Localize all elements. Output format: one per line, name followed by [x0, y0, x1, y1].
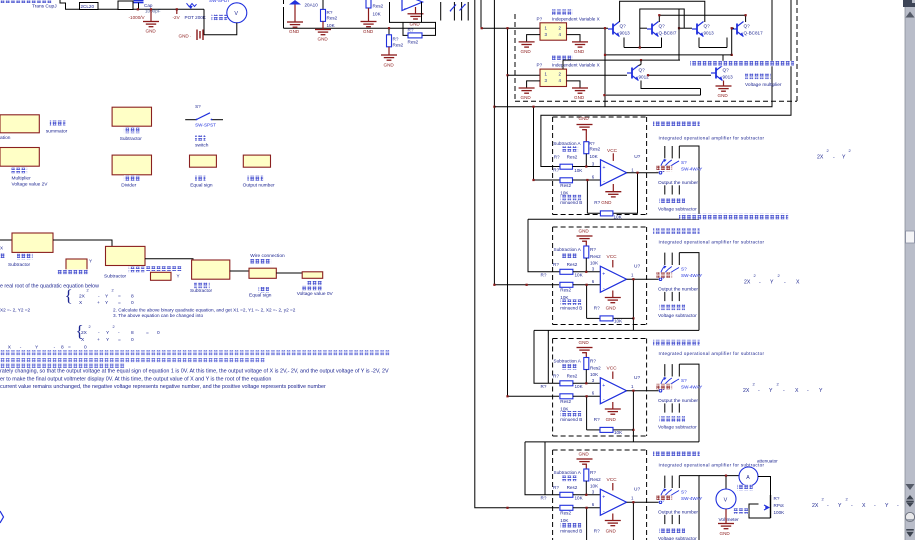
- svg-text:10K: 10K: [575, 384, 584, 389]
- svg-text:-2V: -2V: [173, 15, 181, 20]
- svg-text:X: X: [862, 503, 866, 509]
- block 2 feedback wire: [632, 279, 634, 330]
- ground under Q6: [723, 81, 725, 87]
- svg-text:GND: GND: [718, 93, 729, 98]
- scrollbar button sphere: [905, 512, 914, 521]
- block 2 switch contacts: [664, 253, 666, 265]
- svg-text:minuend B: minuend B: [560, 528, 582, 533]
- block 3 output wire: [627, 390, 659, 392]
- block 3 wire input A to pin3: [573, 382, 600, 384]
- svg-text:+: +: [602, 271, 605, 277]
- wire Q2 base stub: [640, 27, 647, 29]
- svg-text:·: ·: [190, 34, 192, 39]
- block 3 feedback wire: [632, 391, 634, 442]
- svg-text:VCC: VCC: [607, 148, 618, 154]
- svg-text:GND: GND: [606, 305, 617, 310]
- svg-text:20A10: 20A10: [305, 3, 319, 8]
- block 4 resistor R? Res2 10K vertical: [584, 469, 589, 481]
- svg-text:Y: Y: [770, 280, 774, 286]
- svg-text:GND: GND: [579, 116, 590, 121]
- block 4 title 减法器用集成运算放: [653, 451, 700, 457]
- svg-text:Subtraction A: Subtraction A: [553, 141, 581, 146]
- potentiometer R? POT 200K: [187, 3, 197, 7]
- svg-text:Trans CupJ: Trans CupJ: [32, 4, 57, 10]
- svg-text:10K: 10K: [560, 518, 569, 523]
- svg-text:10K: 10K: [327, 23, 336, 28]
- svg-text:-: -: [833, 155, 835, 161]
- svg-text:Q?: Q?: [744, 24, 751, 29]
- svg-text:Multiplier: Multiplier: [12, 175, 32, 181]
- svg-text:2X: 2X: [743, 388, 750, 394]
- svg-text:Res2: Res2: [590, 254, 601, 259]
- wire mark left edge: [0, 511, 4, 523]
- transistor Q? 9013 (1): [608, 22, 620, 37]
- svg-text:GND: GND: [384, 62, 395, 67]
- svg-text:R?: R?: [553, 168, 559, 173]
- svg-text:Integrated operational amplifi: Integrated operational amplifier for sub…: [659, 135, 765, 140]
- resistor R? Res2 vertical 3: [388, 28, 390, 35]
- block 3 feedback resistor R? 10K: [600, 427, 613, 432]
- block 2 rotary switch S? SW-4WAY: [659, 267, 679, 281]
- svg-text:=: =: [68, 345, 71, 350]
- capacitor C1 Cap 1000pF: [134, 1, 144, 3]
- svg-text:{: {: [65, 286, 73, 305]
- svg-text:P?: P?: [537, 63, 543, 68]
- wire Q3 base stub: [679, 27, 692, 29]
- svg-text:U?: U?: [634, 154, 640, 160]
- svg-text:+: +: [97, 338, 100, 343]
- svg-text:-: -: [759, 280, 761, 286]
- svg-text:Y: Y: [842, 155, 846, 161]
- svg-text:VCC: VCC: [607, 254, 618, 260]
- block 4 VCC: [612, 483, 614, 490]
- svg-text:Q-BC8!7: Q-BC8!7: [659, 31, 677, 36]
- block subtractor C: [106, 246, 146, 265]
- svg-text:Output the number: Output the number: [658, 180, 698, 186]
- block 2 resistor input A: [560, 269, 573, 274]
- block 3 rotary switch S? SW-4WAY: [659, 378, 679, 392]
- wire stub bus 2: [453, 2, 455, 21]
- block 1 resistor input B: [560, 178, 573, 183]
- block 4 switch contacts lower: [664, 515, 666, 524]
- svg-text:GND: GND: [363, 29, 374, 34]
- svg-text:Output the number: Output the number: [658, 287, 698, 293]
- svg-text:Subtraction A: Subtraction A: [554, 247, 582, 252]
- block 1 VCC: [612, 153, 614, 161]
- block summator 加法器: [0, 115, 39, 133]
- svg-text:er to make the final output vo: er to make the final output voltmeter di…: [0, 376, 271, 382]
- bus wire A (to block4 input): [475, 0, 559, 508]
- block 2 output rail: [534, 329, 699, 331]
- block 1 note 减法器对功能A 差值数值传感 电压不变: [679, 214, 788, 220]
- svg-text:SW-4WAY: SW-4WAY: [681, 385, 702, 390]
- wire Q5 collector: [640, 60, 642, 64]
- svg-text:switch: switch: [195, 142, 209, 148]
- wire mid rail y54.9: [604, 54, 731, 56]
- svg-text:X: X: [0, 246, 3, 251]
- svg-text:V: V: [724, 497, 728, 503]
- block 2 resistor input B: [560, 282, 573, 287]
- label 开关 switch: [195, 135, 205, 141]
- bus wire C (to block2 input): [494, 0, 559, 285]
- svg-text:9013: 9013: [620, 31, 631, 36]
- svg-text:10K: 10K: [590, 372, 599, 377]
- node -1000/V: [137, 8, 139, 10]
- svg-text:minuend B: minuend B: [560, 417, 582, 422]
- svg-text:R?: R?: [393, 37, 399, 42]
- block 2 feedback resistor R? 10K: [600, 316, 613, 321]
- ground under op-amp: [415, 7, 417, 14]
- block 2 VCC: [612, 260, 614, 267]
- svg-text:Divider: Divider: [121, 183, 136, 189]
- svg-text:Output the number: Output the number: [658, 398, 698, 404]
- svg-text:VCC: VCC: [607, 366, 618, 372]
- block 1 wire input A to pin3: [573, 166, 601, 168]
- block 3 op-amp U?: [600, 378, 626, 404]
- svg-text:10K: 10K: [574, 168, 583, 173]
- block 2 op-amp ground: [612, 291, 614, 298]
- block 3 switch label 输出数: [657, 384, 673, 390]
- svg-text:X: X: [796, 280, 800, 286]
- wire stub bus 1: [440, 2, 442, 21]
- block 3 output rail: [525, 441, 699, 443]
- wire rail2: [640, 9, 684, 48]
- svg-text:Res2: Res2: [560, 183, 571, 188]
- svg-text:-: -: [807, 388, 809, 394]
- block 1 resistor input A: [560, 164, 573, 169]
- multiplier note 乘方器的功能是A点电压数值的平方 电压不变: [690, 61, 794, 67]
- svg-text:Independent Variable X: Independent Variable X: [552, 16, 600, 21]
- svg-text:Wire connection: Wire connection: [250, 253, 285, 259]
- svg-text:10K: 10K: [373, 11, 382, 16]
- svg-text:GND: GND: [574, 95, 585, 100]
- voltmeter V2: [716, 489, 736, 509]
- label 电压表: [733, 508, 749, 514]
- block 1 output wire: [627, 172, 659, 174]
- svg-text:S?: S?: [681, 160, 687, 165]
- svg-text:SW-4WAY: SW-4WAY: [681, 273, 702, 278]
- svg-text:Voltage subtractor: Voltage subtractor: [658, 313, 697, 319]
- transistor Q? Q-BC8!7 (2): [647, 22, 659, 37]
- svg-text:GND: GND: [146, 29, 157, 34]
- resistor R? Res2 10K vertical 1: [322, 0, 324, 9]
- feedback resistor R? Res2: [408, 33, 422, 38]
- svg-text:Res2: Res2: [560, 511, 571, 516]
- scrollbar thumb: [906, 231, 915, 243]
- wire stub bus 4: [467, 2, 469, 21]
- wire header1 to Q1 base: [567, 27, 609, 29]
- svg-text:R?: R?: [590, 247, 596, 252]
- svg-text:9013: 9013: [704, 31, 715, 36]
- svg-text:-: -: [874, 503, 876, 509]
- svg-text:2. Calculate the above binary: 2. Calculate the above binary quadratic …: [113, 307, 296, 312]
- block 4 resistor input A: [560, 492, 573, 497]
- wire main rail: [133, 8, 204, 10]
- wire top rail: [620, 1, 705, 22]
- scrollbar down arrow: [906, 484, 915, 490]
- svg-text:+: +: [602, 383, 605, 389]
- wire multiplier output to block1 +: [494, 0, 772, 107]
- wire rail y60: [563, 59, 680, 61]
- ground under voltmeter: [725, 509, 727, 524]
- svg-text:GND: GND: [521, 49, 532, 54]
- svg-text:10K: 10K: [590, 154, 599, 159]
- svg-text:0: 0: [157, 330, 160, 336]
- svg-text:R?: R?: [774, 496, 780, 501]
- node -2V: [176, 8, 178, 10]
- block 1 output rail: [528, 218, 699, 220]
- svg-text:attenuator: attenuator: [757, 459, 778, 464]
- block 4 resistor input B: [560, 505, 573, 510]
- block 1 switch contacts: [664, 146, 666, 158]
- svg-text:Subtraction A: Subtraction A: [554, 359, 582, 364]
- svg-text:Independent Variable X: Independent Variable X: [552, 63, 600, 68]
- svg-text:2CL20: 2CL20: [81, 4, 95, 9]
- svg-text:Integrated operational amplifi: Integrated operational amplifier for sub…: [659, 351, 765, 356]
- block 2 op-amp U?: [600, 266, 626, 292]
- block voltage value 0V: [302, 272, 323, 279]
- svg-text:Y: Y: [838, 503, 842, 509]
- bus wire B (to header P1): [481, 0, 540, 28]
- wire Q5 emitter rail: [641, 81, 701, 89]
- svg-text:R?: R?: [327, 10, 333, 15]
- svg-text:Q?: Q?: [639, 68, 646, 73]
- chinese paragraph line 2: [0, 357, 265, 362]
- svg-text:0: 0: [131, 337, 134, 343]
- block 1 feedback wire: [587, 173, 637, 214]
- svg-text:10K: 10K: [614, 430, 623, 435]
- wire to Q6 base: [648, 74, 711, 76]
- block 3 resistor input B: [560, 394, 573, 399]
- block 2 output wire: [627, 278, 659, 280]
- svg-text:1000pF: 1000pF: [145, 8, 161, 13]
- feedback wires: [390, 2, 436, 35]
- svg-text:Voltage value 0V: Voltage value 0V: [297, 291, 334, 297]
- svg-text:Q-BC817: Q-BC817: [744, 31, 764, 36]
- svg-text:2: 2: [113, 325, 115, 329]
- svg-text:GND: GND: [289, 29, 300, 34]
- svg-text:current value remains unchange: current value remains unchanged, the neg…: [0, 384, 326, 390]
- svg-text:Cap: Cap: [144, 3, 153, 8]
- op-amp U? (top, partial): [402, 0, 423, 11]
- svg-text:GND: GND: [579, 452, 590, 457]
- svg-text:GND: GND: [601, 200, 612, 205]
- svg-text:10K: 10K: [590, 484, 599, 489]
- svg-text:100K: 100K: [774, 510, 786, 515]
- svg-text:2X: 2X: [81, 330, 88, 336]
- wire into subtractor A: [0, 239, 12, 241]
- svg-text:8: 8: [61, 344, 64, 350]
- svg-text:-: -: [827, 503, 829, 509]
- svg-text:0: 0: [131, 300, 134, 306]
- svg-text:Voltmeter: Voltmeter: [719, 517, 740, 523]
- block 2 title 减法器用集成运算放: [653, 228, 700, 234]
- switch glyph S: [451, 5, 457, 11]
- block 4 feedback wire: [632, 502, 634, 540]
- block 1 switch contacts lower: [664, 185, 666, 194]
- wire F to G: [276, 272, 302, 274]
- svg-text:Voltage value 2V: Voltage value 2V: [12, 182, 49, 188]
- block 1 op-amp ground: [612, 184, 614, 192]
- svg-text:Subtractor: Subtractor: [120, 136, 143, 142]
- wire C to E: [145, 259, 193, 260]
- svg-text:2: 2: [112, 289, 114, 293]
- block 1 feedback resistor R? 10K: [600, 211, 613, 216]
- svg-text:10K: 10K: [614, 319, 623, 324]
- svg-text:2X: 2X: [79, 293, 86, 299]
- svg-text:0: 0: [84, 344, 87, 350]
- svg-text:GND: GND: [574, 49, 585, 54]
- svg-text:S?: S?: [681, 267, 687, 272]
- svg-text:R?: R?: [594, 200, 600, 205]
- wire bus to header P2: [508, 74, 541, 76]
- svg-text:GND: GND: [179, 34, 190, 39]
- svg-text:SW-SPDT: SW-SPDT: [209, 0, 230, 3]
- svg-text:2: 2: [87, 289, 89, 293]
- svg-text:Res2: Res2: [590, 146, 601, 151]
- svg-text:Res2: Res2: [373, 4, 384, 9]
- chinese paragraph line 3: [0, 364, 125, 369]
- rectifier box 2: [118, 1, 133, 10]
- ground header1 pin3: [527, 35, 540, 42]
- svg-text:Y: Y: [885, 503, 889, 509]
- svg-text:Voltage subtractor: Voltage subtractor: [658, 424, 697, 430]
- svg-text:R?: R?: [541, 272, 547, 277]
- diode bridge 2CL20: [80, 3, 99, 10]
- svg-text:-: -: [897, 503, 899, 509]
- svg-text:SW-4WAY: SW-4WAY: [681, 166, 702, 171]
- ground under D1: [287, 22, 303, 27]
- scrollbar top icon: [903, 0, 915, 7]
- svg-text:+: +: [603, 165, 606, 171]
- ground under R2: [361, 22, 377, 27]
- wire voltmeter tap: [725, 476, 727, 489]
- wire rail3 collector link: [659, 15, 745, 22]
- label 电流表: [737, 485, 753, 491]
- svg-text:Res2: Res2: [567, 262, 578, 267]
- svg-text:X2 =- 2, Y2 =2: X2 =- 2, Y2 =2: [0, 307, 31, 312]
- svg-text:GND: GND: [606, 528, 617, 533]
- wire block4 top to ammeter: [699, 475, 739, 477]
- wire voltmeter loop: [204, 9, 237, 35]
- svg-text:Subtraction A: Subtraction A: [554, 470, 582, 475]
- svg-text:Res2: Res2: [590, 477, 601, 482]
- svg-text:S?: S?: [681, 490, 687, 495]
- svg-text:Subtractor: Subtractor: [104, 274, 127, 280]
- switch glyph S2: [460, 5, 466, 11]
- voltmeter V1: [227, 3, 247, 23]
- wire horizontal rail y28: [284, 27, 436, 29]
- wire bottom rail y95: [604, 94, 700, 96]
- svg-text:R?: R?: [554, 154, 560, 159]
- wire header2 to Q5 base: [567, 74, 628, 76]
- block 3 VCC: [612, 372, 614, 379]
- block 4 output wire: [627, 501, 659, 503]
- svg-text:S?: S?: [681, 378, 687, 383]
- wire A to C: [53, 240, 112, 246]
- wire left riser x605: [604, 28, 606, 107]
- svg-text:P?: P?: [537, 16, 543, 21]
- wire transformer to rectifier: [60, 0, 80, 9]
- block 2 cascade wire to next block: [534, 330, 560, 383]
- svg-text:U?: U?: [634, 264, 640, 270]
- block 3 label 电压减法器: [659, 416, 685, 422]
- block 3 switch loop wire: [679, 364, 699, 442]
- block subtractor A: [12, 233, 53, 252]
- ground GND1: [150, 9, 152, 21]
- svg-text:V: V: [234, 11, 238, 17]
- svg-text:10K: 10K: [560, 295, 569, 300]
- svg-text:GND: GND: [606, 417, 617, 422]
- svg-text:Res2: Res2: [408, 39, 419, 44]
- block 1 wire input B to pin6: [573, 179, 601, 181]
- block 1 title 减法器用集成运算放: [653, 121, 700, 127]
- voltmeter label 电压表: [212, 15, 228, 21]
- svg-text:10K: 10K: [614, 214, 623, 219]
- svg-text:GND: GND: [521, 95, 532, 100]
- block 1 rotary switch S? SW-4WAY: [659, 160, 679, 174]
- resistor R? Res2 10K vertical 2: [366, 0, 371, 8]
- svg-text:Res2: Res2: [567, 154, 578, 159]
- svg-text:Y: Y: [769, 388, 773, 394]
- wire emitter join right pair: [699, 47, 727, 49]
- svg-text:Y: Y: [177, 274, 180, 279]
- svg-text:GND: GND: [720, 531, 731, 536]
- header P? Independent Variable X (2): [540, 69, 567, 86]
- block 3 switch contacts lower: [664, 403, 666, 412]
- wire E to F: [230, 270, 249, 272]
- svg-text:=: =: [118, 338, 121, 343]
- svg-text:R?: R?: [590, 470, 596, 475]
- block 4 op-amp ground: [612, 514, 614, 521]
- svg-text:summator: summator: [46, 128, 68, 134]
- block 3 resistor R? Res2 10K vertical: [584, 358, 589, 370]
- block 4 switch loop wire: [679, 476, 699, 540]
- svg-text:Voltage subtractor: Voltage subtractor: [658, 536, 697, 540]
- svg-text:R?: R?: [553, 373, 559, 378]
- header P? Independent Variable X (1): [540, 23, 567, 40]
- ground under R3: [381, 55, 397, 60]
- wire multiplier output2 to block1 -: [541, 0, 791, 167]
- block input Y2 small: [151, 272, 172, 280]
- svg-text:R?: R?: [590, 359, 596, 364]
- svg-text:Y: Y: [89, 259, 92, 264]
- svg-text:R?: R?: [594, 417, 600, 422]
- svg-text:Voltage subtractor: Voltage subtractor: [658, 206, 697, 212]
- block multiplier 乘法器: [0, 148, 39, 167]
- svg-text:Subtractor: Subtractor: [8, 262, 31, 268]
- block 3 title 减法器用集成运算放: [653, 340, 700, 346]
- block subtractor 减法器: [112, 107, 151, 126]
- block 1 op-amp U?: [601, 160, 627, 186]
- subtractor block 1 dashed box: [553, 116, 647, 118]
- svg-text:2: 2: [89, 325, 91, 329]
- block 2 wire input A to pin3: [573, 271, 600, 273]
- block 2 label 电压减法器: [659, 305, 685, 311]
- ammeter A: [739, 467, 758, 486]
- block 3 op-amp ground: [612, 402, 614, 409]
- wire Q6 collector: [722, 55, 724, 65]
- svg-text:e real root of the quadratic e: e real root of the quadratic equation be…: [0, 284, 99, 290]
- svg-text:Subtractor: Subtractor: [190, 288, 213, 294]
- ground header2 pin4: [567, 81, 581, 88]
- svg-text:10K: 10K: [575, 272, 584, 277]
- svg-text:R?: R?: [541, 384, 547, 389]
- svg-text:-: -: [784, 280, 786, 286]
- svg-text:=: =: [146, 331, 149, 336]
- block 2 switch loop wire: [679, 253, 699, 331]
- ground header1 pin4: [567, 35, 581, 42]
